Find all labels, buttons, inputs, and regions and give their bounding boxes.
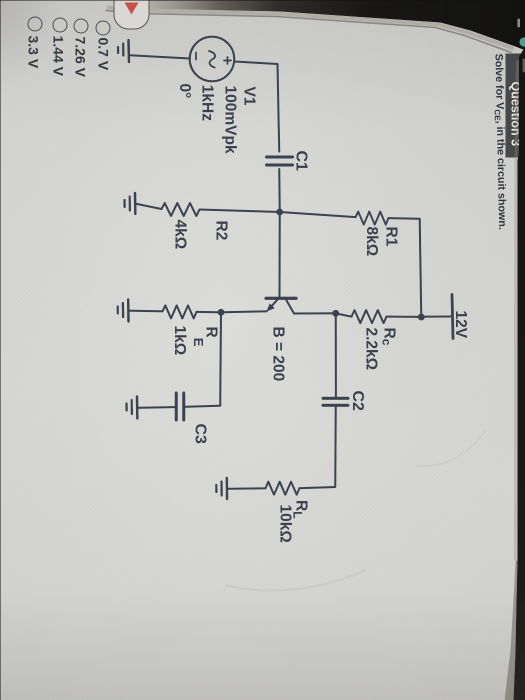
resistor RE — [162, 305, 196, 318]
wire — [334, 313, 336, 397]
faint gray fade under page-right black strip — [515, 60, 517, 560]
nav pill marker with red triangle — [114, 0, 150, 29]
wire — [199, 209, 279, 212]
source V1 — [189, 36, 234, 81]
node collector — [332, 309, 339, 316]
option 0.7V — [95, 20, 110, 35]
brown fade page bottom-right — [504, 560, 517, 700]
capacitor C3 — [176, 393, 183, 420]
option 1.44V — [52, 17, 67, 32]
wire — [299, 406, 335, 487]
wire — [234, 61, 279, 151]
thin dark screen border line — [105, 10, 511, 52]
wire — [419, 218, 421, 316]
power 12V supply — [421, 294, 453, 338]
node 12V rail — [417, 313, 424, 320]
wire — [185, 312, 221, 407]
wire — [128, 309, 162, 312]
option 3.3V — [27, 16, 42, 31]
wire — [135, 203, 161, 208]
ground — [216, 478, 227, 499]
wire — [278, 169, 280, 212]
wire — [278, 212, 280, 297]
faint white marks in dark band — [517, 18, 520, 27]
wire — [388, 217, 419, 220]
capacitor C1 — [266, 157, 292, 165]
wire — [279, 212, 355, 217]
ground — [126, 396, 137, 418]
ground — [124, 193, 135, 214]
wire — [221, 311, 267, 312]
wire — [386, 315, 421, 317]
ground — [117, 299, 128, 321]
light bezel line along page-top screen edge — [107, 7, 513, 48]
Question 3 header bar — [505, 53, 525, 157]
resistor RL — [265, 481, 299, 494]
wire — [137, 406, 174, 409]
wire — [196, 310, 221, 312]
wire — [335, 313, 351, 316]
resistor Rc — [351, 310, 386, 323]
corner black — [77, 0, 525, 50]
wire — [227, 487, 265, 490]
question text — [491, 53, 508, 229]
resistor R2 — [161, 203, 199, 216]
wire — [294, 312, 335, 314]
ground — [118, 40, 129, 62]
transistor Q1 — [266, 298, 296, 313]
node base — [276, 208, 283, 215]
capacitor C2 — [323, 398, 348, 405]
wire — [129, 55, 190, 58]
option 7.26V — [74, 18, 89, 33]
node emitter — [217, 308, 224, 315]
soft vignette at landscape bottom-left corner (page top-left) — [0, 0, 105, 120]
teal circle icon at top edge — [519, 37, 525, 46]
top strip (landscape top edge = page right) — [513, 46, 525, 700]
resistor R1 — [355, 211, 388, 224]
